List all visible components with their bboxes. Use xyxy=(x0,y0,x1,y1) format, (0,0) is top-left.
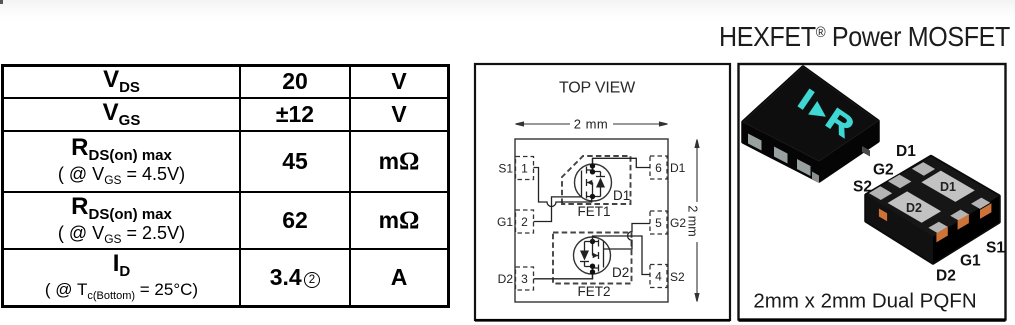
mosfet FET2 symbol (rotated 180) xyxy=(580,240,604,280)
package photos box frame xyxy=(739,64,1006,320)
wire G1 to FET1 gate xyxy=(534,197,582,222)
IR logo xyxy=(794,85,860,144)
top package right corner notch xyxy=(862,146,870,157)
svg-text:G1: G1 xyxy=(960,253,981,270)
svg-text:3: 3 xyxy=(521,272,528,286)
pin 3 box xyxy=(516,267,534,290)
pad D1 large xyxy=(921,171,974,202)
svg-text:2 mm: 2 mm xyxy=(686,205,700,236)
svg-text:2mm x 2mm Dual PQFN: 2mm x 2mm Dual PQFN xyxy=(753,290,976,313)
pad D2 large xyxy=(888,191,942,222)
top-view box frame xyxy=(475,64,730,320)
top package (marking view) body xyxy=(743,67,878,181)
package outline xyxy=(515,139,668,302)
wire S1 to FET1 source (with hop over G1 wire) xyxy=(534,168,592,207)
wire FET2 drain to pin 3 xyxy=(534,275,593,279)
pad S1 xyxy=(971,198,990,209)
wire FET2 source to pin 4 (S2) xyxy=(593,236,651,275)
svg-text:D2: D2 xyxy=(612,265,629,280)
top package corner pad xyxy=(812,172,819,184)
pin 1 box xyxy=(516,157,534,180)
FET1 drain junction dots xyxy=(590,163,595,168)
vertical dimension 2 mm xyxy=(695,140,699,302)
mosfet FET1 body circle xyxy=(575,164,612,201)
svg-text:D1: D1 xyxy=(896,143,916,160)
svg-text:G2: G2 xyxy=(873,162,894,179)
FET1 die pad dashed outline xyxy=(562,156,631,204)
pad G1 xyxy=(950,210,969,221)
HEXFET title xyxy=(719,21,1010,53)
pad D2 corner tab xyxy=(928,222,947,233)
pin 2 box xyxy=(516,210,534,233)
bottom package (pad view) body xyxy=(866,157,999,264)
svg-text:S1: S1 xyxy=(498,162,513,176)
svg-text:5: 5 xyxy=(655,216,662,230)
svg-text:D2: D2 xyxy=(936,268,956,285)
svg-text:S2: S2 xyxy=(670,270,685,284)
bottom package right side face xyxy=(933,196,999,263)
svg-text:6: 6 xyxy=(655,161,662,175)
svg-text:D2: D2 xyxy=(906,201,922,215)
top package leg 1 xyxy=(748,134,762,151)
svg-text:FET1: FET1 xyxy=(577,204,610,219)
copper tab under G1 xyxy=(958,214,969,230)
svg-text:1: 1 xyxy=(521,162,528,176)
svg-text:FET2: FET2 xyxy=(577,284,610,299)
svg-text:TOP VIEW: TOP VIEW xyxy=(559,80,636,97)
mosfet FET2 body circle xyxy=(574,237,611,274)
FET2 drain junction dots xyxy=(590,269,595,274)
box bottom edges emphasis xyxy=(475,319,730,322)
FET2 body diode triangle xyxy=(580,251,589,261)
FET1 body arrow xyxy=(587,180,593,186)
mosfet FET1 symbol xyxy=(582,159,606,199)
FET2 source junction dot xyxy=(590,239,595,244)
top package top face xyxy=(743,67,878,161)
copper tab under S1 xyxy=(980,203,991,219)
svg-text:D2: D2 xyxy=(498,272,514,286)
svg-text:G1: G1 xyxy=(497,215,513,229)
pin 5 box xyxy=(650,211,667,234)
svg-text:D1: D1 xyxy=(940,180,956,194)
pin 6 box xyxy=(650,156,667,179)
svg-text:4: 4 xyxy=(655,270,662,284)
top package leg 3 xyxy=(797,159,811,176)
svg-text:2 mm: 2 mm xyxy=(574,117,609,132)
wire G2 pin 5 to FET2 gate (with hop over S2 wire) xyxy=(604,224,651,250)
bottom package left side face xyxy=(866,195,933,263)
page corner speck xyxy=(0,0,3,4)
bottom package top face xyxy=(866,157,999,238)
svg-text:S2: S2 xyxy=(853,179,872,196)
svg-text:D1: D1 xyxy=(670,161,686,175)
pad S2 xyxy=(869,186,892,200)
FET2 die pad dashed outline xyxy=(553,233,632,284)
horizontal dimension 2 mm xyxy=(516,122,668,126)
ratings table xyxy=(1,64,450,308)
FET2 body arrow xyxy=(593,253,599,259)
FET1 source junction dot xyxy=(590,194,595,199)
pad D1 corner tab xyxy=(912,162,935,176)
svg-text:D1: D1 xyxy=(613,188,630,203)
wire FET1 drain to pin 6 xyxy=(593,158,651,167)
svg-text:G2: G2 xyxy=(670,216,686,230)
FET1 body diode triangle xyxy=(596,178,605,188)
pad G2 xyxy=(888,175,911,189)
copper tab left face xyxy=(879,209,887,222)
copper tab under D2 xyxy=(936,227,947,243)
pin 4 box xyxy=(650,265,667,288)
svg-text:S1: S1 xyxy=(986,240,1005,257)
top package leg 2 xyxy=(774,147,788,164)
svg-text:2: 2 xyxy=(521,215,528,229)
